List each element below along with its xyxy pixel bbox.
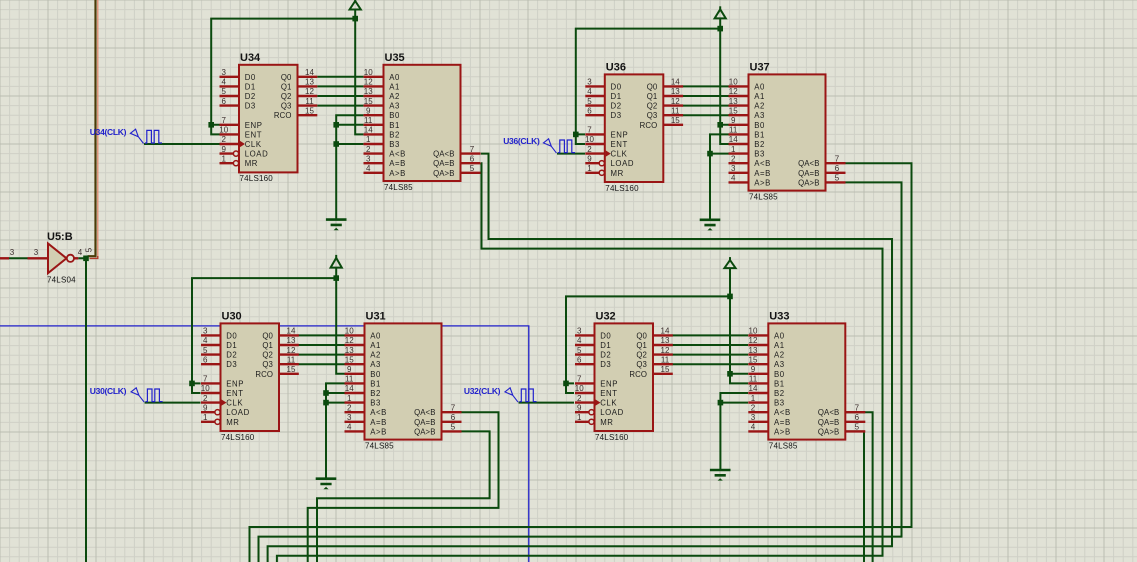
- svg-text:74LS85: 74LS85: [365, 441, 394, 450]
- svg-text:4: 4: [78, 248, 83, 257]
- svg-text:U37: U37: [750, 61, 770, 73]
- svg-text:U35: U35: [385, 52, 405, 64]
- svg-text:U30(CLK): U30(CLK): [90, 386, 127, 396]
- svg-text:74LS160: 74LS160: [595, 433, 629, 442]
- svg-text:3: 3: [10, 248, 15, 257]
- svg-text:74LS160: 74LS160: [240, 174, 274, 183]
- svg-text:U34(CLK): U34(CLK): [90, 127, 127, 137]
- svg-text:U30: U30: [222, 310, 242, 322]
- svg-text:U36: U36: [606, 61, 626, 73]
- svg-text:5: 5: [85, 247, 94, 252]
- svg-text:74LS85: 74LS85: [749, 192, 778, 201]
- svg-text:U32(CLK): U32(CLK): [464, 386, 501, 396]
- svg-text:74LS85: 74LS85: [384, 183, 413, 192]
- svg-text:U5:B: U5:B: [47, 231, 73, 243]
- svg-text:U34: U34: [240, 52, 261, 64]
- svg-text:74LS85: 74LS85: [769, 441, 798, 450]
- svg-text:74LS160: 74LS160: [605, 184, 639, 193]
- svg-text:U36(CLK): U36(CLK): [503, 136, 540, 146]
- svg-text:3: 3: [34, 248, 39, 257]
- svg-text:U32: U32: [596, 310, 616, 322]
- svg-text:U31: U31: [366, 310, 386, 322]
- svg-text:U33: U33: [769, 310, 789, 322]
- svg-text:74LS160: 74LS160: [221, 433, 255, 442]
- svg-text:74LS04: 74LS04: [47, 275, 76, 284]
